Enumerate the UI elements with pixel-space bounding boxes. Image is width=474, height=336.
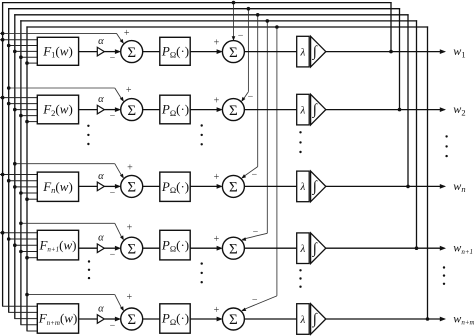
svg-text:+: +: [214, 95, 220, 106]
svg-text:Σ: Σ: [127, 103, 136, 119]
svg-text:λ: λ: [300, 314, 306, 326]
svg-text:−: −: [252, 295, 258, 306]
svg-text:α: α: [98, 171, 104, 182]
svg-text:−: −: [253, 227, 259, 238]
svg-text:+: +: [214, 172, 220, 183]
svg-text:−: −: [110, 321, 116, 332]
svg-text:+: +: [126, 292, 132, 303]
svg-text:+: +: [124, 28, 130, 39]
svg-text:λ: λ: [300, 181, 306, 193]
svg-text:F2(w): F2(w): [42, 102, 73, 118]
svg-text:Σ: Σ: [229, 45, 238, 61]
svg-text:α: α: [98, 94, 104, 105]
svg-text:Σ: Σ: [127, 312, 136, 328]
svg-text:Σ: Σ: [127, 241, 136, 257]
svg-text:−: −: [110, 53, 116, 64]
svg-text:+: +: [214, 234, 220, 245]
svg-text:−: −: [238, 31, 244, 42]
svg-text:−: −: [110, 188, 116, 199]
svg-text:−: −: [110, 111, 116, 122]
svg-text:F1(w): F1(w): [42, 44, 73, 60]
svg-text:+: +: [214, 305, 220, 316]
svg-text:+: +: [127, 222, 133, 233]
svg-text:Σ: Σ: [229, 180, 238, 196]
svg-text:−: −: [110, 250, 116, 261]
svg-text:−: −: [248, 92, 254, 103]
svg-text:Fn(w): Fn(w): [42, 179, 73, 195]
svg-text:+: +: [127, 163, 133, 174]
svg-text:Σ: Σ: [229, 312, 238, 328]
svg-text:λ: λ: [300, 243, 306, 255]
svg-text:α: α: [98, 233, 104, 244]
svg-text:α: α: [98, 303, 104, 314]
svg-text:−: −: [251, 170, 257, 181]
svg-text:Σ: Σ: [127, 45, 136, 61]
svg-text:Σ: Σ: [127, 180, 136, 196]
svg-text:α: α: [98, 36, 104, 47]
svg-text:λ: λ: [300, 104, 306, 116]
svg-text:λ: λ: [300, 46, 306, 58]
svg-text:Σ: Σ: [229, 241, 238, 257]
svg-text:+: +: [214, 37, 220, 48]
svg-text:Σ: Σ: [229, 103, 238, 119]
svg-text:+: +: [126, 85, 132, 96]
